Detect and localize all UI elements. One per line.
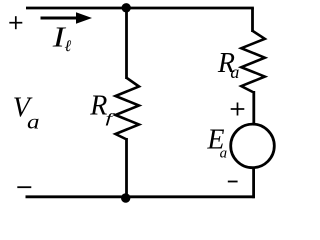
svg-text:a: a — [27, 112, 40, 134]
svg-text:f: f — [106, 112, 116, 127]
svg-text:ℓ: ℓ — [65, 38, 72, 55]
svg-text:a: a — [230, 62, 239, 82]
svg-text:a: a — [220, 145, 228, 161]
